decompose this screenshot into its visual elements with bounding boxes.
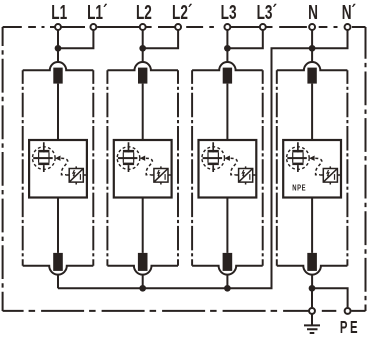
svg-text:N´: N´ [342, 2, 356, 24]
svg-text:L1: L1 [51, 2, 67, 24]
svg-text:N: N [308, 2, 318, 24]
svg-text:L3: L3 [221, 2, 237, 24]
svg-text:L2: L2 [136, 2, 152, 24]
svg-text:L2´: L2´ [172, 2, 192, 24]
svg-text:PE: PE [340, 319, 360, 338]
svg-text:L1´: L1´ [87, 2, 107, 24]
svg-text:L3´: L3´ [257, 2, 277, 24]
svg-text:NPE: NPE [292, 184, 306, 193]
